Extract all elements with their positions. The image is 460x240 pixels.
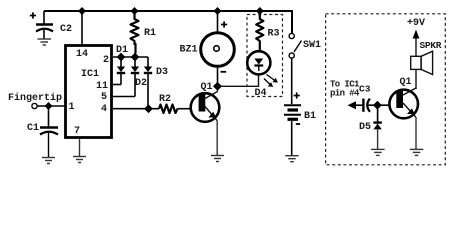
ground (below C1) [42,158,55,164]
wire: +V top rail [44,11,292,33]
svg-text:SPKR: SPKR [420,40,442,51]
svg-text:C2: C2 [60,24,72,35]
svg-text:R3: R3 [268,28,280,39]
diode D3 [144,57,168,109]
capacitor C3 [359,84,389,112]
diode D2 [131,57,147,97]
resistor R1 [131,11,157,54]
buzzer BZ1 [180,11,235,86]
wire: D2 to pin 5 [113,96,135,98]
wire: rail to IC pin 14 [81,11,83,45]
svg-text:IC1: IC1 [81,69,99,80]
ground (below C2) [38,39,52,45]
LED D4 [247,51,278,99]
net +9V [407,18,425,56]
svg-text:SW1: SW1 [303,40,321,51]
svg-text:2: 2 [103,55,109,66]
wire: collector node to D4 leg [218,75,259,86]
svg-text:5: 5 [101,92,107,103]
svg-text:BZ1: BZ1 [180,44,198,55]
resistor R3 [256,11,279,51]
node: junction rail/R3 [256,7,264,15]
IC U1 (IC1 box) [66,46,112,138]
svg-text:R1: R1 [144,28,156,39]
ground (below B1) [285,156,299,162]
svg-text:+9V: +9V [407,18,425,29]
battery B1 [284,92,316,155]
svg-text:11: 11 [96,81,108,92]
wire: IC pin 2 diode bus [113,56,148,58]
node: junction rail/R1 [131,7,139,15]
transistor Q1 (driver) [389,77,418,118]
svg-text:D4: D4 [255,88,267,99]
svg-text:B1: B1 [304,111,316,122]
svg-text:C3: C3 [359,84,371,95]
resistor R2 [159,94,178,113]
svg-text:D5: D5 [359,122,371,133]
node: junction rail/BZ1 [214,7,222,15]
wire: R2 to Q1 base [178,108,191,110]
node: To IC1 pin #4 input [330,80,363,110]
switch SW1 [289,11,321,104]
diode D5 [359,105,382,149]
svg-text:D2: D2 [135,78,147,89]
ground (below pin 7) [73,157,86,163]
dashed option box (R3/D4) [247,15,283,97]
svg-text:D3: D3 [156,67,168,78]
svg-text:7: 7 [74,126,80,137]
wire: driver emitter to ground [415,117,417,149]
svg-text:4: 4 [101,104,107,115]
transistor Q1 [191,82,220,122]
svg-text:1: 1 [69,102,75,113]
svg-text:R2: R2 [159,94,171,105]
node: junction pin4/D3 [144,104,153,113]
node: junction rail/pin14 [78,7,86,15]
node: Fingertip input [8,92,64,110]
diode D1 [116,45,128,85]
svg-text:14: 14 [76,49,88,60]
svg-text:Q1: Q1 [201,82,213,93]
svg-text:Fingertip: Fingertip [8,92,62,104]
ground (below D5) [371,149,385,155]
svg-text:C1: C1 [27,123,39,134]
svg-text:pin #4: pin #4 [330,89,360,99]
capacitor C1 [27,106,58,157]
wire: IC pin 7 to ground [79,139,81,156]
ground (below Q1) [211,156,224,162]
node: junction C3/D5/base [373,101,382,110]
ground (below driver Q1) [410,149,424,155]
capacitor C2 [30,11,72,39]
node: junction bus/D1 [117,53,126,62]
wire: IC pin 4 row [113,108,159,110]
node: junction bus/D2-R1 [131,53,140,62]
svg-text:Q1: Q1 [400,77,412,88]
wire: D1 to pin 11 [113,84,121,86]
speaker SPKR [411,40,442,89]
wire: Q1 collector up to node [217,86,219,91]
node: junction collector/BZ1/D4 [213,82,222,91]
wire: Q1 emitter to ground [216,121,218,156]
svg-text:D1: D1 [116,45,128,56]
dashed module box (speaker driver) [326,14,446,165]
